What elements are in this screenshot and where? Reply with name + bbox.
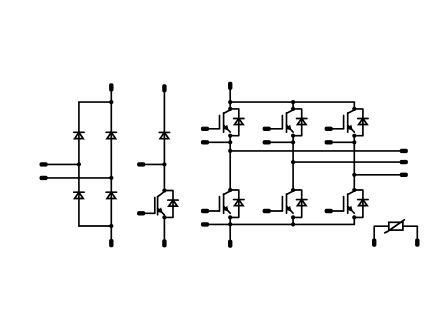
terminal brake resistor left — [372, 239, 376, 247]
wire rail to Q1 collector — [229, 102, 231, 109]
terminal chopper top — [162, 84, 166, 92]
transistor Q4 (lower IGBT leg A) — [220, 191, 231, 213]
node AC1 junction — [77, 162, 81, 166]
node chopper emitter — [162, 215, 166, 219]
wire emitter sense lead Q2 — [269, 141, 293, 143]
diode D3 — [74, 192, 84, 198]
node DC- rail at leg2 — [291, 222, 295, 226]
diode D5 (chopper freewheel) — [159, 132, 169, 138]
node chopper input junction — [162, 162, 166, 166]
terminal gate G1 — [201, 127, 209, 131]
node Q6 collector — [352, 188, 356, 192]
node AC2 junction — [109, 176, 113, 180]
diode D2 — [106, 132, 116, 138]
terminal emitter sense E3 — [325, 140, 333, 144]
terminal emitter sense E2 — [263, 140, 271, 144]
wire rectifier right leg upper — [110, 102, 112, 178]
wire Q6 emitter to DC- rail — [353, 217, 355, 224]
wire AC input 1 lead — [46, 163, 79, 165]
diode D7 (antiparallel Q2) — [293, 109, 307, 136]
wire gate lead Q1 — [208, 128, 220, 130]
wire chopper upper branch — [163, 91, 165, 165]
wire chopper input lead — [144, 163, 165, 165]
wire gate lead Q3 — [331, 128, 343, 130]
node Q6 emitter — [352, 215, 356, 219]
wire phase A output — [230, 150, 400, 152]
terminal DC+ (rectifier top) — [109, 83, 113, 91]
terminal phase C — [400, 173, 408, 177]
terminal chopper gate — [137, 211, 145, 215]
wire leg A midsection — [229, 136, 231, 190]
node Q2 collector — [291, 107, 295, 111]
diode D10 (antiparallel Q5) — [293, 190, 307, 217]
wire chopper emitter to terminal — [163, 217, 165, 240]
wire brake resistor left lead — [374, 226, 389, 240]
wire rectifier top terminal to node — [110, 90, 112, 102]
transistor Q1 (upper IGBT leg A) — [220, 110, 231, 132]
diode D12 (chopper antiparallel) — [164, 191, 178, 218]
terminal chopper DC input — [137, 162, 145, 166]
terminal DC- (rectifier bottom) — [109, 239, 113, 247]
transistor Q2 (upper IGBT leg B) — [282, 110, 293, 132]
transistor Q6 (lower IGBT leg C) — [344, 191, 355, 213]
wire gate lead Q2 — [269, 128, 282, 130]
node phase C tap — [352, 173, 356, 177]
wire gate lead Q4 — [208, 210, 220, 212]
resistor R1 (brake resistor) — [385, 220, 405, 233]
transistor Q7 (brake chopper IGBT) — [155, 192, 165, 215]
node Q4 emitter — [228, 215, 232, 219]
diode D11 (antiparallel Q6) — [354, 190, 368, 217]
node phase B tap — [291, 160, 295, 164]
wire rail to Q3 collector — [353, 102, 355, 109]
node phase A tap — [228, 149, 232, 153]
wire emitter sense lead Q3 — [331, 141, 354, 143]
terminal brake resistor right — [415, 239, 419, 247]
wire rectifier to bottom terminal — [110, 226, 112, 241]
terminal inverter DC+ top — [228, 82, 232, 90]
wire Q4 emitter to DC- rail — [229, 217, 231, 224]
wire chopper gate lead — [144, 212, 155, 214]
wire gate lead Q5 — [269, 210, 282, 212]
node Q5 collector — [291, 188, 295, 192]
wire inverter DC+ drop — [229, 88, 231, 102]
transistor Q5 (lower IGBT leg B) — [282, 191, 293, 213]
terminal AC input 1 — [40, 162, 48, 166]
node Q5 emitter — [291, 215, 295, 219]
wire brake resistor right lead — [403, 226, 417, 240]
wire leg C midsection — [353, 136, 355, 190]
node Q1 emitter — [228, 134, 232, 138]
node emitter sense junction Q2 — [291, 140, 295, 144]
wire rectifier bottom rail — [79, 225, 111, 227]
wire rectifier left leg lower — [78, 164, 80, 226]
diode D8 (antiparallel Q3) — [354, 109, 368, 136]
terminal AC input 2 — [40, 176, 48, 180]
terminal phase A — [400, 149, 408, 153]
node emitter sense junction Q1 — [228, 140, 232, 144]
node rectifier DC- junction — [109, 224, 113, 228]
wire rectifier top rail — [79, 101, 111, 103]
terminal gate G2 — [263, 127, 271, 131]
wire rectifier left leg upper — [78, 102, 80, 164]
node Q2 emitter — [291, 134, 295, 138]
diode D9 (antiparallel Q4) — [230, 190, 244, 217]
wire chopper to IGBT collector — [163, 164, 165, 190]
node Q3 collector — [352, 107, 356, 111]
node DC- rail at leg1 — [228, 222, 232, 226]
wire DC+ rail — [230, 101, 354, 103]
node Q4 collector — [228, 188, 232, 192]
terminal inverter DC- bottom — [228, 240, 232, 248]
terminal gate G5 — [263, 209, 271, 213]
wire leg B midsection — [292, 136, 294, 190]
node DC+ rail at leg2 — [291, 100, 295, 104]
terminal gate G4 — [201, 209, 209, 213]
diode D6 (antiparallel Q1) — [230, 109, 244, 136]
wire inverter DC- drop — [229, 224, 231, 241]
wire phase C output — [354, 174, 399, 176]
node DC+ rail at leg1 — [228, 100, 232, 104]
node emitter sense junction Q3 — [352, 140, 356, 144]
terminal phase B — [400, 160, 408, 164]
node Q1 collector — [228, 107, 232, 111]
wire gate lead Q6 — [331, 210, 343, 212]
node rectifier DC+ junction — [109, 100, 113, 104]
terminal chopper bottom — [162, 239, 166, 247]
wire AC input 2 lead — [46, 177, 111, 179]
node chopper collector — [162, 188, 166, 192]
diode D1 — [74, 132, 84, 138]
terminal gate G3 — [325, 127, 333, 131]
transistor Q3 (upper IGBT leg C) — [344, 110, 355, 132]
wire Q5 emitter to DC- rail — [292, 217, 294, 224]
terminal gate G6 — [325, 209, 333, 213]
diode D4 — [106, 192, 116, 198]
wire emitter sense lead Q1 — [208, 141, 231, 143]
terminal emitter sense E1 — [201, 140, 209, 144]
node Q3 emitter — [352, 134, 356, 138]
terminal DC- emitter sense — [201, 222, 209, 226]
wire phase B output — [293, 161, 400, 163]
wire DC- rail — [208, 223, 355, 225]
wire rail to Q2 collector — [292, 102, 294, 109]
wire rectifier right leg lower — [110, 178, 112, 226]
